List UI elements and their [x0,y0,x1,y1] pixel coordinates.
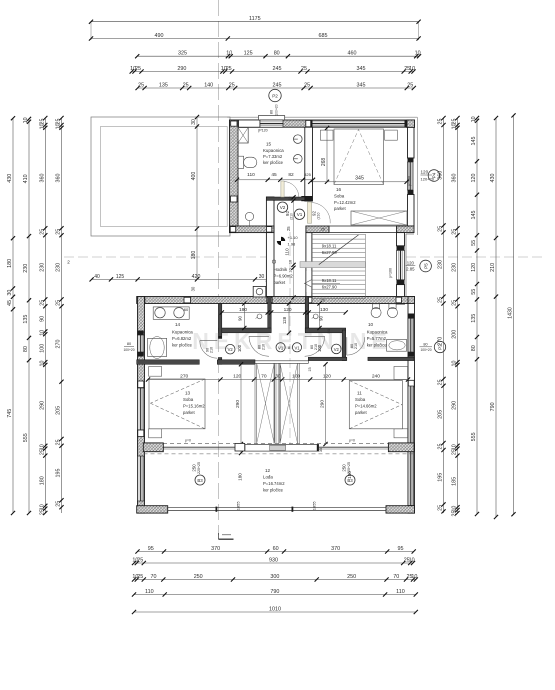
jamb [397,246,405,251]
svg-text:8: 8 [288,346,290,350]
dim chain 40 125 420 30 [92,278,268,280]
pier [138,381,144,388]
svg-text:270: 270 [56,340,62,349]
svg-text:180: 180 [237,473,242,481]
top chains [90,22,92,40]
svg-text:V2: V2 [228,347,234,352]
svg-text:120: 120 [471,174,477,183]
svg-text:360: 360 [56,174,62,183]
window P2 left [138,335,144,352]
toilet bath10 [371,308,381,318]
stair diagonal [319,235,359,265]
svg-text:250: 250 [342,464,347,472]
axis end marker [218,533,220,539]
svg-text:B3: B3 [197,478,203,483]
svg-text:25: 25 [137,557,143,563]
lower left wall [138,297,145,514]
svg-text:370: 370 [331,546,340,552]
upper top wall [230,120,415,127]
svg-text:P=12.42m2: P=12.42m2 [334,200,356,205]
svg-text:20: 20 [321,228,325,232]
svg-text:745: 745 [7,409,13,418]
svg-text:70: 70 [393,574,399,580]
svg-text:195: 195 [56,469,62,478]
svg-text:10: 10 [289,260,293,264]
svg-text:25: 25 [40,449,46,455]
svg-text:(210: (210 [317,212,321,219]
svg-text:1175: 1175 [249,16,261,22]
svg-text:30: 30 [191,119,197,125]
svg-text:555: 555 [23,433,29,442]
svg-text:250: 250 [347,574,356,580]
svg-text:P=6.90m2: P=6.90m2 [274,274,294,279]
stair west wall opening [306,271,311,292]
dimension chain bottom chain 4 [134,594,416,596]
svg-text:270: 270 [438,337,444,346]
svg-text:6x27.90: 6x27.90 [322,285,338,290]
svg-text:345: 345 [357,66,366,72]
svg-text:140: 140 [204,82,213,88]
door handle [272,260,275,263]
svg-text:60: 60 [184,307,189,312]
stair up arrow head [305,280,312,288]
V2 circle [277,202,287,212]
svg-text:145: 145 [471,137,477,146]
svg-text:100: 100 [237,344,242,352]
boiler circles on wall [294,135,303,144]
svg-text:25: 25 [229,82,235,88]
vanity bath10 [387,340,407,352]
column 15 [235,443,245,451]
dimension chain bottom chain 2 [134,562,413,564]
bottom wall east corner [386,506,415,513]
svg-text:410: 410 [23,174,29,183]
right wall hatch loggia [408,444,415,451]
window P2 [260,120,283,127]
P2 window label top [269,89,281,101]
axis line stairs [289,232,291,455]
svg-text:40: 40 [94,274,100,280]
svg-text:790: 790 [270,589,279,595]
svg-text:95: 95 [398,546,404,552]
svg-text:1855: 1855 [312,501,317,511]
svg-text:180: 180 [239,307,247,313]
svg-text:110: 110 [145,589,154,595]
window gap lower top wall [184,297,191,303]
svg-text:10: 10 [23,117,29,123]
svg-text:240: 240 [372,374,380,380]
stair treads [312,234,366,236]
svg-text:70: 70 [261,374,267,380]
svg-text:25: 25 [226,66,232,72]
door swing [305,336,325,356]
wardrobe room 16 [351,211,407,225]
wall end pier [301,196,312,201]
svg-text:25: 25 [56,300,62,306]
svg-text:25: 25 [286,226,291,231]
svg-text:25: 25 [407,82,413,88]
svg-text:90: 90 [318,316,323,321]
svg-text:V1: V1 [278,345,284,350]
stair east wall upper [397,233,405,246]
jamb [405,120,408,126]
svg-text:25: 25 [301,66,307,72]
svg-text:30: 30 [191,286,196,291]
svg-text:135: 135 [159,82,168,88]
jamb [218,336,221,339]
svg-text:200: 200 [452,330,458,339]
bath14 east wall lower [218,358,221,365]
stair north wall west piece [306,226,329,233]
double sink bath14 [153,307,189,319]
loggia dashed line upper [163,443,414,445]
svg-text:325: 325 [178,51,187,57]
svg-text:230: 230 [452,263,458,272]
dimension chain top chain 3 [137,55,419,57]
svg-text:V2: V2 [334,347,340,352]
right wall hatch bottom [408,506,415,513]
svg-text:345: 345 [355,176,364,182]
svg-text:205: 205 [438,410,444,419]
svg-text:70: 70 [151,574,157,580]
svg-text:ker pločice: ker pločice [367,343,388,348]
jamb [408,314,414,319]
window P4 [408,162,414,190]
svg-text:35: 35 [319,448,323,452]
pier [396,297,401,303]
svg-text:100: 100 [40,344,46,353]
svg-text:10: 10 [40,330,46,336]
svg-text:120: 120 [323,374,331,380]
svg-text:685: 685 [319,33,328,39]
svg-text:100+20: 100+20 [275,104,279,116]
svg-text:268: 268 [321,158,327,167]
svg-text:9x18.11: 9x18.11 [322,244,337,249]
room16 right wall lower part [408,195,415,227]
svg-text:P=16.74m2: P=16.74m2 [263,481,285,486]
svg-text:185: 185 [452,477,458,486]
svg-text:80: 80 [127,342,131,346]
svg-text:10: 10 [368,322,374,327]
svg-text:290: 290 [320,400,326,408]
nightstand right [385,130,398,140]
svg-text:210: 210 [490,263,496,272]
svg-text:P=15.16m2: P=15.16m2 [183,404,205,409]
svg-text:V2: V2 [280,205,286,210]
svg-text:230: 230 [56,263,62,272]
svg-text:250: 250 [192,464,197,472]
svg-text:9x18.11: 9x18.11 [322,278,337,283]
svg-text:45: 45 [271,172,277,178]
svg-text:25: 25 [452,300,458,306]
svg-text:180: 180 [347,471,352,479]
stairwell slab edge band [245,444,319,451]
door swing [249,336,269,356]
loggia dashed line lower [144,453,415,455]
svg-text:110: 110 [247,172,255,178]
svg-text:25: 25 [40,509,46,515]
dimension chain bottom chain 1 [138,551,414,553]
nightstands room 11 [394,367,408,380]
svg-text:360: 360 [452,174,458,183]
slab end cap [317,444,319,451]
right hall north wall [305,328,346,333]
V1 circle [294,209,304,219]
svg-text:ker pločice: ker pločice [172,343,193,348]
svg-text:90: 90 [40,316,46,322]
svg-text:1010: 1010 [269,606,281,612]
stair X right flight [280,363,298,443]
svg-text:460: 460 [348,51,357,57]
svg-text:25: 25 [56,439,62,445]
svg-text:120: 120 [471,263,477,272]
svg-text:210: 210 [210,347,214,353]
svg-text:V1: V1 [294,345,300,350]
svg-text:360: 360 [438,171,444,180]
svg-text:P2: P2 [272,94,278,99]
dim 345 [310,181,406,183]
dimension chain left chain 3 [44,118,46,513]
stair window p=100 [397,250,405,279]
svg-text:790: 790 [490,402,496,411]
svg-text:230: 230 [438,260,444,269]
svg-text:290: 290 [40,401,46,410]
svg-text:P=5.77m2: P=5.77m2 [367,336,387,341]
right wall pier mid [408,380,414,387]
dim 268 vertical [326,128,328,182]
loggia wall pier east [388,443,414,452]
svg-text:180: 180 [7,259,13,268]
svg-text:290: 290 [452,401,458,410]
svg-text:ker pločice: ker pločice [263,488,284,493]
dim 290 right [325,364,327,444]
outer contour thin lines [227,116,417,118]
loggia wall pier west [143,443,163,452]
wall between room 15 and 16 [305,127,313,201]
svg-text:P=7.33m2: P=7.33m2 [263,154,283,159]
wall lamps [257,314,262,319]
svg-text:25: 25 [438,297,444,303]
svg-text:25: 25 [438,505,444,511]
svg-text:125: 125 [244,51,253,57]
svg-text:400: 400 [191,172,197,181]
svg-text:120: 120 [407,260,415,265]
svg-text:Kupaonica: Kupaonica [367,330,388,335]
svg-text:1430: 1430 [508,307,514,319]
svg-text:(210: (210 [289,213,293,220]
svg-text:245: 245 [273,82,282,88]
svg-text:10: 10 [40,123,46,129]
toilet room 15 [238,156,243,168]
V1 circles lower [276,343,285,352]
svg-text:16: 16 [336,187,342,192]
svg-text:P5: P5 [423,263,428,269]
bed room 16 [334,129,384,185]
svg-text:P=6.82m2: P=6.82m2 [172,336,192,341]
svg-text:Soba: Soba [183,397,194,402]
svg-text:180: 180 [40,476,46,485]
svg-text:1.98: 1.98 [288,242,297,247]
V2 left circle [225,344,235,354]
svg-text:90: 90 [237,316,242,321]
svg-text:25: 25 [56,229,62,235]
svg-text:55: 55 [471,240,477,246]
door room16 leaf [307,202,311,223]
svg-text:parket: parket [334,206,346,211]
svg-text:25: 25 [56,501,62,507]
svg-text:80: 80 [423,342,427,346]
svg-text:290: 290 [177,66,186,72]
svg-text:10: 10 [415,51,421,57]
svg-text:95: 95 [148,546,154,552]
svg-text:10: 10 [288,197,292,201]
svg-text:P=14.66m2: P=14.66m2 [355,404,377,409]
svg-text:80: 80 [23,346,29,352]
svg-text:130: 130 [320,307,328,313]
svg-text:50: 50 [326,328,331,333]
svg-text:10: 10 [226,51,232,57]
right wall hatch top [408,297,415,304]
dimension chain left chain 4 [61,118,63,513]
svg-text:135: 135 [471,314,477,323]
sink in nook [245,212,253,220]
svg-text:25: 25 [438,119,444,125]
svg-text:230: 230 [40,263,46,272]
door bath15 swing [281,181,284,197]
svg-text:825: 825 [304,172,311,177]
svg-text:195: 195 [438,473,444,482]
svg-text:(P120: (P120 [258,129,268,133]
svg-text:parket: parket [274,280,286,285]
svg-text:V1: V1 [297,212,303,217]
loggia right opening [408,451,414,506]
pier [140,297,145,303]
svg-text:110: 110 [396,589,405,595]
level marker [281,237,285,241]
svg-text:345: 345 [357,82,366,88]
stair west wall [306,233,312,299]
nightstands room 13 [149,367,162,377]
svg-text:10: 10 [40,361,46,367]
bath10 west wall [342,330,346,361]
svg-text:220+25: 220+25 [197,462,201,474]
svg-text:25: 25 [438,226,444,232]
room16 right wall upper part [408,127,415,158]
svg-text:45: 45 [7,300,13,306]
svg-text:10: 10 [409,557,415,563]
dimension chain left chain 1 [12,118,14,513]
right chain 1430 [513,115,515,514]
svg-text:120: 120 [421,170,429,175]
svg-text:128: 128 [282,316,287,324]
washing machine room 15 [238,128,248,144]
jamb [138,352,144,357]
svg-text:555: 555 [471,432,477,441]
dimension chain right chain 2 [457,118,459,513]
bidet bath10 [388,308,398,318]
svg-text:25: 25 [137,574,143,580]
bathtub bath14 [148,338,167,356]
bath10 south wall east part [368,357,414,360]
svg-text:+1.10: +1.10 [288,235,299,240]
svg-text:p=0: p=0 [185,439,191,443]
svg-text:Soba: Soba [334,194,345,199]
svg-text:Kupaonica: Kupaonica [263,148,284,153]
svg-text:120: 120 [284,307,292,313]
svg-text:25: 25 [183,82,189,88]
svg-text:2: 2 [67,260,70,265]
svg-text:Soba: Soba [355,397,366,402]
long window room 16 [311,120,407,126]
pier [267,227,272,233]
svg-text:25: 25 [304,82,310,88]
hall south wall right [308,357,347,360]
svg-text:110: 110 [284,248,289,256]
bath15 dim line [237,179,313,181]
pier [307,297,312,303]
svg-text:Lođa: Lođa [263,475,273,480]
dimension chain right chain 1 [443,118,445,513]
svg-text:10: 10 [471,116,477,122]
svg-text:490: 490 [155,33,164,39]
svg-text:P4: P4 [432,172,437,178]
svg-text:ker pločice: ker pločice [263,160,284,165]
svg-text:25: 25 [452,449,458,455]
landing east wall [305,297,309,332]
jamb [138,331,144,336]
svg-text:205: 205 [56,406,62,415]
svg-text:10: 10 [409,66,415,72]
wall below bath nook [230,226,275,233]
svg-text:10: 10 [289,268,293,272]
bath 15 south wall [266,197,304,200]
bottom wall west corner [137,506,168,513]
jamb [397,280,405,285]
chimney shaft [253,286,266,297]
svg-text:30: 30 [7,290,13,296]
svg-text:100+20: 100+20 [123,348,134,352]
bath14 south wall west part [137,360,200,365]
top wall right corner [407,120,415,127]
lower stair rails [254,363,256,443]
stair mid landing [300,262,365,268]
dimension chain right chain 4 [495,118,497,517]
terrace dim 30/400/180 [196,117,198,279]
svg-text:25: 25 [438,444,444,450]
svg-text:1855: 1855 [236,501,241,511]
stair eye line [364,234,366,298]
stair up arrow line [312,282,340,284]
hall south wall left [217,360,255,365]
svg-text:25: 25 [452,229,458,235]
svg-text:Hodnik: Hodnik [274,267,288,272]
dimension chain left chain 2 [28,119,30,513]
svg-text:210: 210 [354,343,358,349]
svg-text:250: 250 [194,574,203,580]
bottom chain 1010 [134,611,416,613]
svg-text:25: 25 [452,511,458,517]
mullion [216,507,218,512]
svg-text:180: 180 [191,251,197,260]
axis line horizontal right [406,256,543,258]
B3 circles [195,475,205,485]
svg-text:25: 25 [40,229,46,235]
bath14 east wall upper [218,304,221,339]
upper left wall [230,120,239,233]
stair north wall east piece [397,226,415,233]
svg-text:6x27.90: 6x27.90 [322,250,338,255]
svg-text:p=100: p=100 [389,268,393,278]
